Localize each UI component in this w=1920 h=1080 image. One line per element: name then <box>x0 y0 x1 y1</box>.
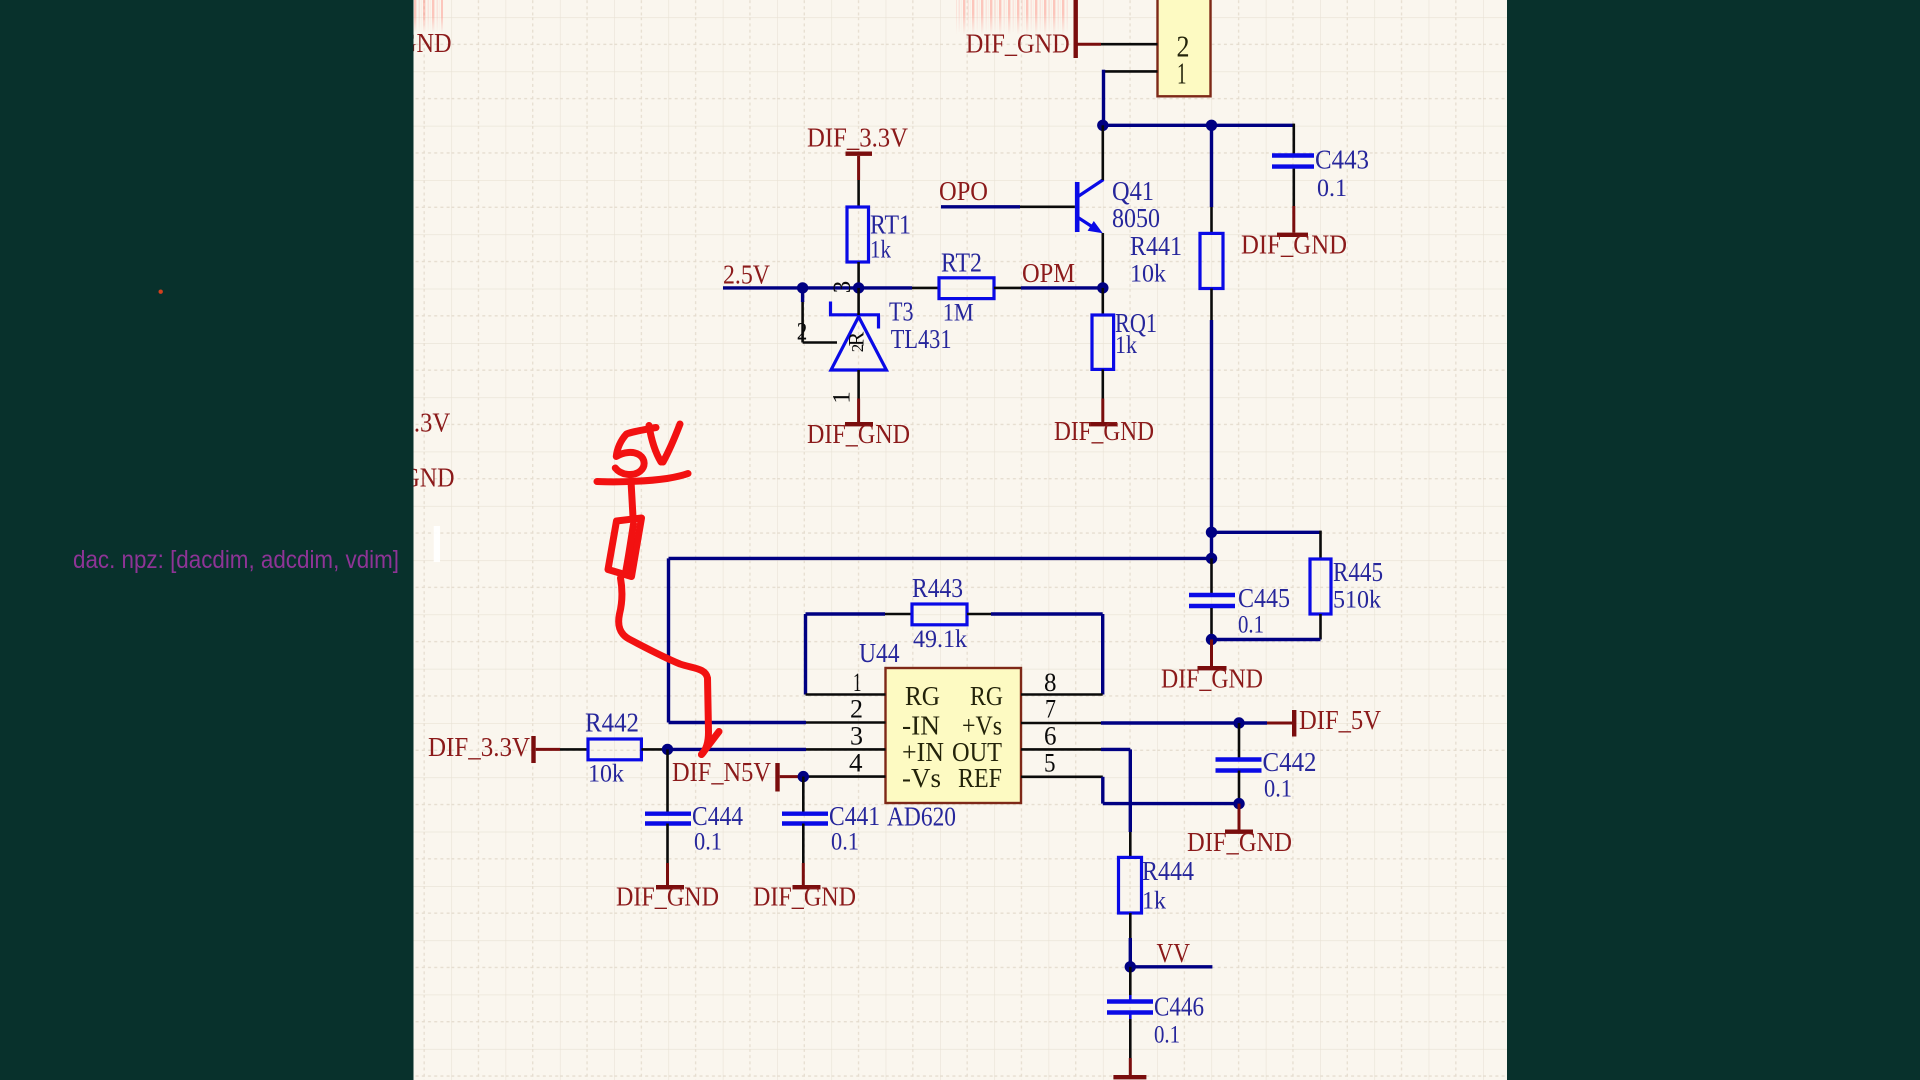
resistor R445 <box>1310 559 1331 614</box>
wire riser to pin2 <box>669 721 807 724</box>
svg-text:DIF_GND: DIF_GND <box>807 419 910 449</box>
ground DIF_GND under C445 <box>1198 640 1227 671</box>
svg-text:1M: 1M <box>943 300 974 327</box>
pin 5 lead of U44 <box>1021 775 1103 778</box>
svg-text:R441: R441 <box>1130 231 1182 261</box>
junction VV <box>1125 961 1136 972</box>
pin 8 lead of U44 <box>1021 693 1103 696</box>
svg-text:DIF_GND: DIF_GND <box>1079 1074 1182 1080</box>
svg-text:Q41: Q41 <box>1112 176 1154 206</box>
svg-text:7: 7 <box>1045 695 1056 724</box>
wire R443 left riser <box>806 614 886 695</box>
svg-text:U44: U44 <box>859 638 900 668</box>
svg-text:C445: C445 <box>1238 583 1290 613</box>
shunt reference T3 TL431 <box>829 302 886 371</box>
capacitor C443 <box>1272 156 1314 167</box>
svg-text:VV: VV <box>1157 938 1191 968</box>
wire RT2 to OPM node <box>1021 286 1103 289</box>
svg-text:0.1: 0.1 <box>1154 1022 1180 1049</box>
svg-text:RG: RG <box>970 681 1003 711</box>
svg-text:1: 1 <box>853 668 862 697</box>
svg-text:DIF_GND: DIF_GND <box>1161 664 1263 694</box>
junction at RT1 bottom <box>853 282 864 293</box>
junction at Q41 emitter / RQ1 <box>1097 282 1108 293</box>
power port DIF_GND at connector pin 2 (vertical bar) <box>1074 0 1102 58</box>
riser wire down to pin2 row <box>667 558 670 722</box>
svg-text:8: 8 <box>1044 668 1057 697</box>
white erase patch near canvas left edge <box>434 526 440 562</box>
lead RT1 bottom <box>857 262 860 288</box>
svg-text:49.1k: 49.1k <box>913 626 967 653</box>
svg-text:1k: 1k <box>870 237 891 264</box>
svg-text:DIF_GND: DIF_GND <box>753 882 856 912</box>
wire pin6 elbow down <box>1101 749 1130 832</box>
power port DIF_3.3V at R442 <box>531 736 560 763</box>
ground DIF_GND under C441 <box>793 863 821 889</box>
svg-text:1k: 1k <box>1142 888 1166 915</box>
collector lead of Q41 <box>1102 125 1105 180</box>
lead RT2 right <box>994 287 1021 290</box>
wire node to C443 branch (horizontal) <box>1103 124 1294 127</box>
resistor R444 <box>1119 857 1142 913</box>
svg-text:10k: 10k <box>588 761 624 788</box>
lead R444 top <box>1129 832 1132 857</box>
wire R443 right riser <box>991 614 1103 695</box>
svg-text:0.1: 0.1 <box>694 829 722 856</box>
svg-text:510k: 510k <box>1333 587 1381 614</box>
svg-text:1: 1 <box>829 391 856 404</box>
pin 1 lead of connector <box>1104 70 1158 73</box>
svg-text:-IN: -IN <box>902 711 940 741</box>
capacitor C442 <box>1216 760 1262 771</box>
lead R441 bottom to trunk <box>1210 289 1213 321</box>
wire 2.5V down to T3 pin2 <box>803 288 837 343</box>
lead OPM node to RQ1 <box>1102 288 1105 315</box>
pin 2 lead of U44 <box>806 721 886 724</box>
faded red streak top-center of canvas <box>956 0 1068 34</box>
pin 6 lead of U44 <box>1021 748 1101 751</box>
base lead of Q41 <box>1020 206 1075 209</box>
lead C445 top <box>1210 558 1213 593</box>
svg-text:DIF_GND: DIF_GND <box>1054 416 1154 446</box>
ground DIF_GND under T3 <box>845 399 873 427</box>
lead junction down to C441 <box>802 777 805 812</box>
lead C445 bottom <box>1210 608 1213 640</box>
wire pin7 to DIF_5V node <box>1101 721 1239 724</box>
wire trunk R441 to C445 <box>1210 320 1213 532</box>
svg-text:-Vs: -Vs <box>902 763 941 793</box>
lead C446 top <box>1129 967 1132 1000</box>
wire pin1 elbow to node <box>1102 70 1105 126</box>
wire R444 to VV node <box>1129 938 1132 967</box>
svg-text:AD620: AD620 <box>887 802 956 832</box>
svg-text:DIF_GND: DIF_GND <box>1241 230 1347 260</box>
svg-text:C446: C446 <box>1154 992 1204 1022</box>
junction DIF_N5V / C441 / pin4 <box>798 771 809 782</box>
power port DIF_5V <box>1239 710 1296 737</box>
lead R445 top <box>1319 531 1322 559</box>
capacitor C445 <box>1189 595 1235 606</box>
faded red streak top-left of canvas <box>414 0 443 32</box>
svg-text:REF: REF <box>958 763 1002 793</box>
svg-text:C441: C441 <box>829 801 880 831</box>
svg-text:C442: C442 <box>1263 747 1317 777</box>
wire OPO to Q41 base <box>941 205 1020 208</box>
lead RT2 left <box>912 287 939 290</box>
svg-text:TL431: TL431 <box>891 324 952 354</box>
svg-text:0.1: 0.1 <box>1317 175 1347 202</box>
ground DIF_GND under C442 <box>1225 804 1253 834</box>
junction R442 / C444 / pin3 <box>662 744 673 755</box>
lead C442 top <box>1238 723 1241 758</box>
svg-text:DIF_N5V: DIF_N5V <box>672 757 771 787</box>
lead R442 right <box>641 748 667 751</box>
transistor Q41 8050 (NPN) <box>1075 180 1104 234</box>
lead C443 to ground <box>1293 169 1296 206</box>
lead C441 bottom <box>802 824 805 864</box>
wire trunk between junctions <box>1210 532 1213 558</box>
lead R445 bottom <box>1319 614 1322 640</box>
resistor R443 <box>912 604 967 625</box>
svg-text:1k: 1k <box>1115 332 1137 359</box>
emitter lead of Q41 <box>1102 233 1105 288</box>
connector P? (yellow box, pins 2 and 1) <box>1158 0 1211 96</box>
svg-text:8050: 8050 <box>1112 203 1160 233</box>
svg-text:DIF_5V: DIF_5V <box>1299 705 1381 735</box>
wire 2.5V horizontal <box>723 286 912 289</box>
lead RQ1 bottom <box>1102 369 1105 398</box>
power port DIF_3.3V above RT1 <box>846 152 873 181</box>
svg-text:R442: R442 <box>585 708 639 738</box>
svg-text:DIF_3.3V: DIF_3.3V <box>807 123 908 153</box>
node junction at collector/pin1 <box>1097 120 1108 131</box>
dark sidebar left <box>0 0 414 1080</box>
svg-text:DIF_GND: DIF_GND <box>1187 827 1292 857</box>
svg-text:0.1: 0.1 <box>831 829 859 856</box>
lead junction down to C444 <box>666 749 669 811</box>
op-amp U44 AD620 (yellow box) <box>886 668 1022 803</box>
svg-text:3: 3 <box>829 281 856 294</box>
ground DIF_GND under C443 <box>1277 206 1308 237</box>
dark sidebar right <box>1507 0 1920 1080</box>
lead C442 bottom <box>1238 771 1241 804</box>
lead C444 bottom <box>666 824 669 864</box>
wire junction to pin3 <box>668 748 807 751</box>
schematic canvas background <box>414 0 1508 1080</box>
svg-text:R443: R443 <box>912 573 963 603</box>
pin 7 lead of U44 <box>1021 722 1101 725</box>
capacitor C446 <box>1107 1002 1153 1013</box>
svg-text:OPM: OPM <box>1022 258 1075 288</box>
svg-text:2: 2 <box>797 319 808 346</box>
svg-text:T3: T3 <box>889 297 914 327</box>
lead node to R441 <box>1210 125 1213 233</box>
svg-text:10k: 10k <box>1130 261 1166 288</box>
lead C446 bottom <box>1129 1015 1132 1059</box>
lead R443 right <box>967 613 991 616</box>
lead RT1/wire to T3 cathode <box>857 288 860 315</box>
resistor RQ1 <box>1092 315 1114 369</box>
svg-text:DIF_GND: DIF_GND <box>966 29 1070 59</box>
junction C442 bottom / pin5 wire <box>1233 798 1244 809</box>
long wire to U44 pin2 riser (horizontal) <box>669 557 1212 560</box>
junction trunk / R445 top <box>1206 527 1217 538</box>
tiny red speck in left sidebar <box>159 290 163 294</box>
resistor RT1 <box>847 207 869 262</box>
svg-text:DIF_3.3V: DIF_3.3V <box>428 732 530 762</box>
wire R445 bottom to ground node <box>1212 638 1321 641</box>
resistor R442 <box>588 739 641 760</box>
svg-text:RT2: RT2 <box>941 248 982 278</box>
resistor RT2 <box>939 278 994 299</box>
svg-text:RG: RG <box>905 681 940 711</box>
pin 4 lead of U44 <box>803 775 885 778</box>
junction trunk / long feedback wire <box>1206 553 1217 564</box>
capacitor C441 <box>782 814 828 824</box>
ground DIF_GND under C444 <box>656 863 684 889</box>
svg-text:C443: C443 <box>1315 145 1369 175</box>
pin 1 lead of U44 <box>806 693 886 696</box>
svg-text:+Vs: +Vs <box>962 711 1002 741</box>
svg-text:R444: R444 <box>1142 856 1194 886</box>
hand-drawn red annotation: power bar + resistor + arrow to pin3 <box>597 474 719 755</box>
lead R444 bottom <box>1129 913 1132 938</box>
svg-text:5: 5 <box>1044 749 1056 778</box>
svg-text:DIF_GND: DIF_GND <box>616 882 719 912</box>
lead R442 left <box>560 748 588 751</box>
wire pin5 elbow <box>1103 777 1239 804</box>
wire to R445 top <box>1212 531 1321 534</box>
svg-text:0.1: 0.1 <box>1238 612 1264 639</box>
wire VV stub <box>1130 965 1212 968</box>
lead T3 anode down <box>857 370 860 399</box>
node junction at R441 top branch <box>1206 120 1217 131</box>
hand-drawn red annotation: 5V text <box>615 424 680 475</box>
junction C445 bottom / ground <box>1206 634 1217 645</box>
junction pin7 / C442 <box>1233 717 1244 728</box>
svg-text:1: 1 <box>1177 56 1187 91</box>
svg-text:dac. npz: [dacdim, adcdim, vdi: dac. npz: [dacdim, adcdim, vdim] <box>73 546 399 574</box>
svg-text:OPO: OPO <box>939 176 988 206</box>
lead DIF_3.3V to RT1 <box>857 180 860 207</box>
ground DIF_GND under RQ1 <box>1089 399 1117 427</box>
pin 2 lead of connector <box>1101 43 1158 46</box>
capacitor C444 <box>645 814 691 824</box>
svg-text:2.5V: 2.5V <box>723 260 770 290</box>
ground DIF_GND under C446 <box>1113 1058 1146 1079</box>
svg-text:2: 2 <box>848 344 867 353</box>
power port DIF_N5V <box>775 763 801 792</box>
resistor R441 <box>1200 233 1223 288</box>
svg-text:C444: C444 <box>692 801 743 831</box>
svg-text:0.1: 0.1 <box>1264 776 1292 803</box>
lead from node to C443 <box>1293 124 1296 154</box>
svg-text:3: 3 <box>850 722 863 751</box>
svg-text:2: 2 <box>850 695 863 724</box>
junction at TL431 ref <box>797 282 808 293</box>
lead R443 left <box>885 613 912 616</box>
svg-text:4: 4 <box>849 749 863 778</box>
svg-text:R445: R445 <box>1333 557 1383 587</box>
svg-text:RT1: RT1 <box>870 210 911 240</box>
svg-text:6: 6 <box>1044 722 1057 751</box>
pin 3 lead of U44 <box>806 748 886 751</box>
